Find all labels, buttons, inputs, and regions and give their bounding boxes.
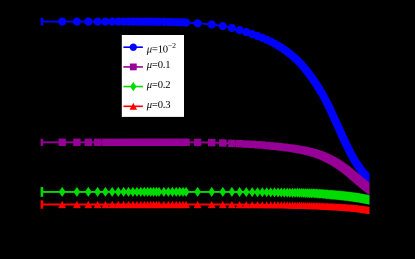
curve mu=0.2 markers (59, 187, 379, 205)
legend box (121, 35, 184, 118)
legend entry mu=0.3 (123, 105, 142, 107)
legend entry mu=10^-2 (123, 46, 142, 48)
curve mu=0.3 line (42, 205, 372, 211)
curve mu=0.1 cap (41, 139, 44, 146)
curve mu=0.1 markers (59, 139, 380, 195)
curve mu=0.2 cap (41, 187, 44, 197)
curve mu=0.1 line (42, 142, 372, 190)
legend text mu=0.3 (147, 100, 171, 111)
curve mu=0.2 line (42, 192, 372, 200)
legend text mu=0.2 (147, 80, 171, 91)
curve mu=10^-2 markers (58, 18, 379, 186)
curve mu=0.3 markers (58, 201, 379, 214)
curve mu=10^-2 line (42, 22, 372, 181)
legend text mu=0.1 (147, 60, 171, 71)
legend entry mu=0.1 (123, 66, 142, 68)
curve mu=10^-2 cap (41, 18, 44, 26)
legend text mu=10^-2 (147, 41, 176, 55)
curve mu=0.3 cap (41, 200, 44, 208)
legend entry mu=0.2 (123, 86, 142, 88)
